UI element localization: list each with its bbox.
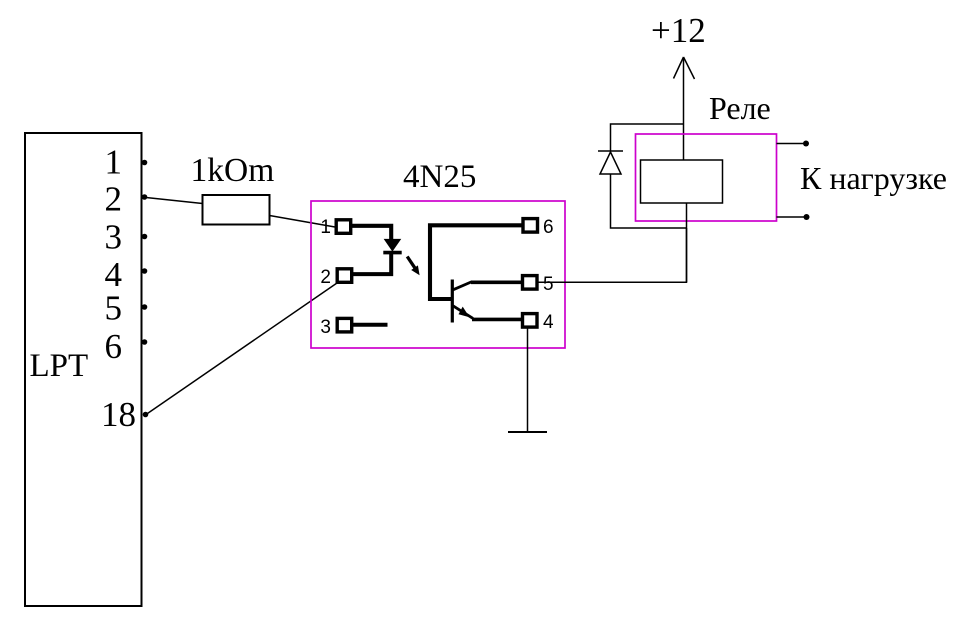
svg-text:К нагрузке: К нагрузке: [800, 160, 947, 196]
power +12 arrow: [683, 57, 685, 160]
relay contact top wire: [777, 143, 807, 145]
svg-text:Реле: Реле: [709, 90, 771, 126]
LPT connector box: [25, 133, 142, 606]
relay contact bottom wire: [777, 216, 807, 218]
svg-text:5: 5: [105, 289, 123, 328]
svg-text:LPT: LPT: [30, 348, 89, 384]
relay K1 box: [636, 134, 777, 221]
relay contact bottom node: [804, 214, 810, 220]
LED D1 triangle: [385, 239, 401, 250]
opto pin 4 square: [523, 314, 538, 328]
diode VD1 triangle: [600, 152, 621, 174]
wire emitter to opto pin4: [472, 318, 523, 322]
svg-text:+12: +12: [651, 11, 706, 50]
opto pin 3 square: [337, 318, 352, 332]
opto pin 5 square: [523, 276, 538, 290]
wire coil bottom to pin5 net: [686, 203, 688, 282]
opto pin 6 square: [523, 219, 538, 233]
wire LPT pin18 to opto pin2: [146, 283, 337, 415]
svg-text:1kOm: 1kOm: [191, 152, 275, 189]
wire opto pin1 to LED anode: [352, 226, 391, 240]
wire collector to opto pin5: [471, 280, 523, 284]
svg-text:3: 3: [105, 218, 123, 257]
wire opto pin3 stub: [353, 323, 388, 327]
svg-text:4N25: 4N25: [403, 159, 476, 195]
svg-text:18: 18: [101, 395, 136, 434]
svg-text:4: 4: [543, 312, 554, 333]
svg-text:6: 6: [105, 327, 123, 366]
node pin6 dot: [142, 339, 148, 345]
ground: [508, 431, 547, 433]
node pin4 dot: [142, 268, 148, 274]
wire resistor to opto pin1: [270, 216, 336, 228]
opto pin 2 square: [337, 269, 352, 283]
diode VD1 bottom wire: [611, 174, 687, 228]
light emission arrow: [407, 257, 415, 268]
relay contact top node: [803, 141, 809, 147]
node pin1 dot: [142, 160, 148, 166]
relay coil: [641, 160, 723, 203]
phototransistor collector line: [453, 282, 472, 290]
phototransistor Q1 base bar: [451, 280, 454, 323]
svg-text:2: 2: [105, 180, 123, 219]
phototransistor emitter line with arrow: [453, 306, 473, 319]
svg-text:6: 6: [543, 217, 554, 238]
svg-text:1: 1: [320, 217, 331, 238]
wire opto pin6 to phototransistor base: [430, 225, 523, 299]
wire LPT pin2 to resistor: [146, 198, 203, 204]
resistor R1 1kOm: [203, 195, 270, 225]
node pin2 dot: [142, 194, 148, 200]
wire LED cathode to opto pin2: [353, 253, 391, 275]
diode VD1 cathode bar: [598, 150, 623, 152]
optocoupler U1 4N25 box: [311, 201, 565, 348]
svg-text:1: 1: [105, 143, 123, 182]
opto pin 1 square: [336, 220, 351, 234]
svg-text:5: 5: [543, 274, 554, 295]
node pin5 dot: [142, 304, 148, 310]
LED D1 cathode bar: [383, 251, 401, 255]
wire opto pin4 to ground: [527, 328, 529, 432]
wire opto pin5 to relay: [538, 228, 687, 282]
node pin18 dot: [143, 412, 149, 418]
node pin3 dot: [142, 234, 148, 240]
svg-text:2: 2: [320, 267, 331, 288]
svg-text:3: 3: [320, 317, 331, 338]
diode VD1 top wire: [611, 124, 685, 151]
